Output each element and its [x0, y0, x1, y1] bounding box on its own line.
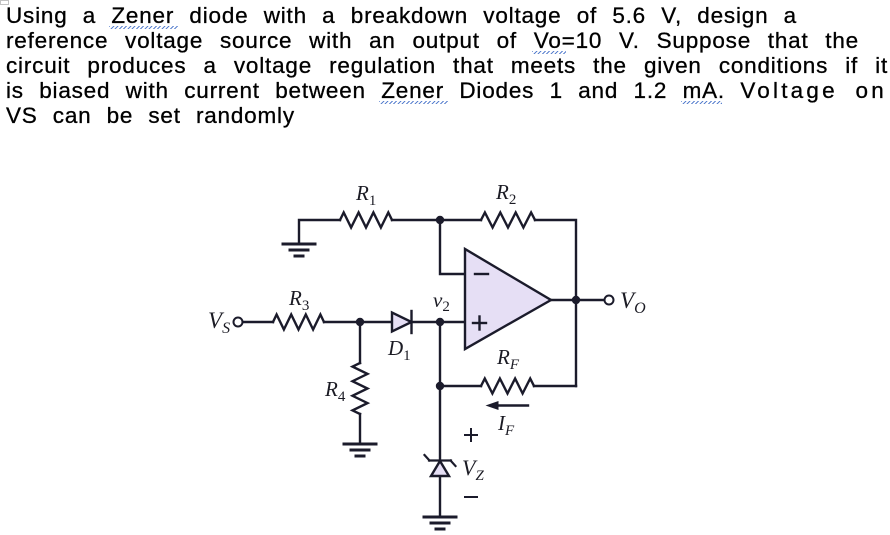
svg-text:R1: R1 — [355, 181, 376, 209]
svg-text:R4: R4 — [324, 377, 346, 405]
svg-text:VS: VS — [208, 308, 230, 337]
svg-text:IF: IF — [497, 411, 515, 439]
svg-text:D1: D1 — [387, 336, 411, 364]
svg-text:VO: VO — [620, 288, 646, 317]
svg-text:R3: R3 — [288, 286, 309, 314]
svg-text:v2: v2 — [433, 288, 450, 315]
svg-text:VZ: VZ — [462, 455, 484, 484]
svg-text:RF: RF — [496, 345, 520, 373]
svg-text:R2: R2 — [495, 180, 516, 208]
